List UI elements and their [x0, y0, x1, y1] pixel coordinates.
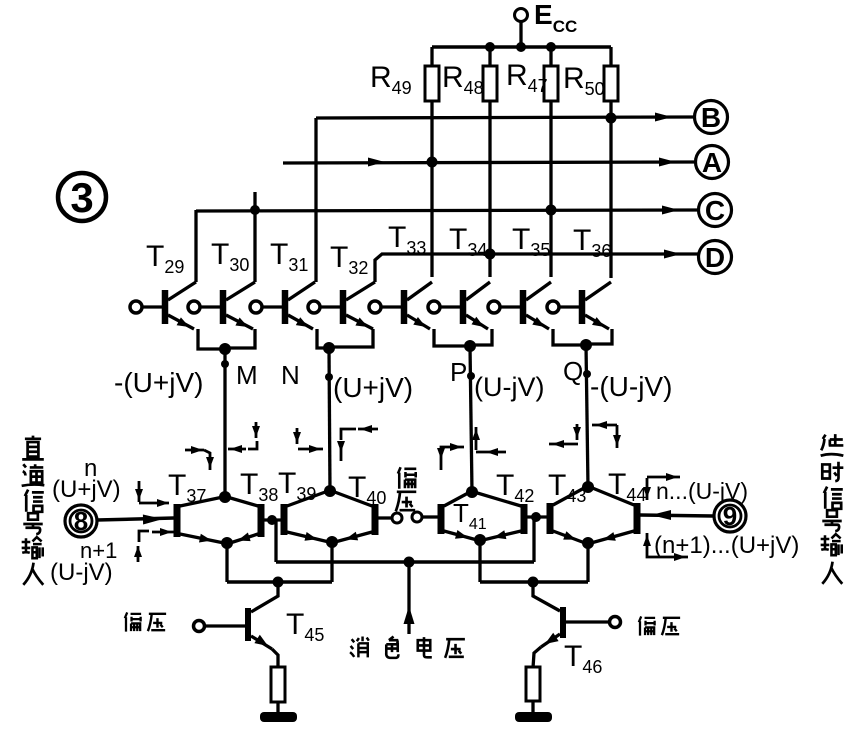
- svg-text:M: M: [236, 360, 258, 390]
- wire base tie drop: [274, 520, 277, 562]
- wire T30 collector vertical: [253, 192, 256, 282]
- wire input 8 to T37: [97, 515, 174, 525]
- marker arrow left of Q: [549, 424, 581, 448]
- arrow into A: [659, 158, 676, 167]
- wire diamond2 emitter drop: [330, 542, 333, 582]
- wire T38-T39 base tie: [264, 518, 281, 521]
- arrow into B: [655, 113, 672, 122]
- node emitter junction 3: [464, 340, 476, 352]
- wire emitters pair 4: [553, 329, 612, 345]
- transistor T37 base bar: [174, 504, 181, 537]
- transistor T36: [547, 282, 611, 329]
- wire diamond4 emitter drop: [586, 543, 589, 582]
- wire T43/T44 collector diagonals: [553, 487, 634, 505]
- svg-text:-(U+jV): -(U+jV): [114, 367, 203, 398]
- junction T46 collector: [528, 577, 539, 588]
- wire T42 emitter: [483, 530, 521, 540]
- marker arrow right of P: [472, 427, 506, 456]
- wire diamond3 emitter drop: [478, 540, 481, 582]
- wire output line A: [283, 162, 695, 163]
- marker arrow left of N: [293, 428, 323, 453]
- junction A-R49: [427, 157, 438, 168]
- column wire R50 to T36: [609, 101, 612, 278]
- marker arrow input9 upper: [643, 473, 680, 500]
- resistor R47: [544, 47, 558, 101]
- transistor T31: [250, 282, 315, 329]
- wire base rail: [276, 560, 534, 564]
- column wire R47 to T35: [549, 101, 552, 277]
- label 直通信号输入 (direct signal input): [22, 436, 45, 585]
- svg-text:(U-jV): (U-jV): [50, 559, 113, 586]
- junction C-T30 collector: [250, 205, 260, 215]
- svg-text:P: P: [450, 357, 467, 387]
- svg-text:8: 8: [74, 506, 88, 536]
- transistor T32: [308, 282, 375, 329]
- wire diamond1 emitter drop: [225, 543, 228, 582]
- wire T40 emitter: [335, 532, 372, 542]
- circled 3 figure label: [58, 173, 106, 221]
- node T41/T42 emitter vertex: [474, 534, 486, 546]
- wire T40 base to bias terminal: [378, 516, 391, 519]
- svg-text:D: D: [705, 242, 725, 273]
- wire T39 emitter: [287, 532, 329, 542]
- transistor T40 base bar: [372, 504, 379, 535]
- marker arrow input9 lower: [643, 533, 688, 561]
- transistor T43 base bar: [547, 503, 554, 534]
- wire to ground right: [531, 701, 534, 714]
- marker arrow left of M: [185, 446, 214, 470]
- wire to ground: [276, 702, 279, 714]
- wire T42-T43 base tie: [527, 515, 547, 518]
- wire emitters pair 2: [317, 329, 373, 348]
- wire line B drop to T31 collector: [314, 118, 317, 282]
- wire output line B: [316, 117, 694, 118]
- node T37/T38 collector vertex: [219, 491, 231, 503]
- marker arrow input8 upper: [135, 481, 169, 507]
- resistor R50: [604, 47, 618, 101]
- junction T38/T39 base: [267, 515, 277, 525]
- svg-text:N: N: [281, 360, 300, 390]
- marker arrow right of M: [228, 422, 260, 453]
- wire output line D: [375, 254, 698, 282]
- resistor R48: [483, 47, 497, 101]
- wire Q: [586, 345, 588, 487]
- wire right emitter rail: [480, 580, 588, 584]
- wire line C drop to T29 collector: [194, 210, 197, 282]
- transistor T39 base bar: [281, 504, 288, 535]
- input terminal 9: [714, 500, 746, 532]
- wire emitters pair 1: [198, 329, 255, 349]
- svg-text:9: 9: [723, 501, 737, 531]
- svg-text:3: 3: [70, 174, 93, 221]
- label 偏压 bias (T45): [125, 612, 166, 631]
- junction color-kill: [404, 557, 415, 568]
- node T37/T38 emitter vertex: [221, 537, 233, 549]
- transistor T45: [194, 583, 279, 668]
- wire T44 emitter: [591, 531, 634, 543]
- wire M: [223, 349, 226, 497]
- wire T41 emitter: [444, 530, 477, 540]
- wire input 9 to T44: [640, 510, 713, 520]
- bias terminal circle 2: [412, 512, 422, 522]
- wire P: [470, 346, 472, 492]
- junction D-R48: [485, 249, 496, 260]
- wire output line C: [196, 210, 698, 211]
- transistor T33: [369, 282, 432, 329]
- wire base tie drop right: [532, 517, 535, 562]
- node emitter junction 2: [323, 342, 335, 354]
- svg-text:B: B: [701, 102, 721, 133]
- node emitter junction 1: [219, 343, 231, 355]
- node T39/T40 collector vertex: [324, 485, 336, 497]
- ground right: [515, 712, 552, 722]
- resistor T45 emitter: [271, 667, 285, 702]
- transistor T42 base bar: [521, 504, 528, 534]
- wire N: [329, 348, 330, 491]
- bus junction: [485, 42, 495, 52]
- wire left emitter rail: [227, 580, 332, 584]
- transistor T38 base bar: [258, 504, 265, 537]
- junction T42/T43 base: [531, 512, 541, 522]
- label 消色电压 color-kill voltage: [350, 637, 465, 658]
- svg-text:Q: Q: [563, 356, 583, 386]
- resistor T46 emitter: [526, 667, 540, 701]
- transistor T46: [533, 583, 621, 668]
- ground: [260, 712, 297, 722]
- transistor T35: [488, 282, 551, 329]
- node C terminal: [699, 194, 732, 227]
- wire T37/T38 collector diagonals: [180, 497, 258, 506]
- Ecc supply terminal: [515, 0, 578, 47]
- wire emitters pair 3: [434, 329, 492, 346]
- node B terminal: [695, 101, 728, 134]
- svg-text:n...(U-jV): n...(U-jV): [656, 478, 748, 504]
- node D terminal: [699, 241, 732, 274]
- arrow into D: [664, 250, 681, 259]
- wire bias to T41 base: [422, 515, 438, 518]
- node T43/T44 collector vertex: [582, 481, 594, 493]
- wire T43 emitter: [553, 531, 585, 543]
- color-kill voltage input arrow: [404, 567, 415, 634]
- bias terminal circle: [392, 513, 402, 523]
- supply bus wire: [432, 45, 611, 49]
- node T41/T42 collector vertex: [466, 486, 478, 498]
- transistor T34: [428, 282, 490, 329]
- node emitter junction 4: [580, 339, 592, 351]
- junction B-R50: [606, 113, 617, 124]
- svg-text:C: C: [705, 195, 725, 226]
- input terminal 8: [65, 505, 97, 537]
- bus junction: [516, 42, 526, 52]
- node T39/T40 emitter vertex: [326, 536, 338, 548]
- column wire R48 to T34: [488, 101, 491, 277]
- wire T37 emitter: [180, 534, 224, 543]
- marker arrow right of N: [337, 425, 378, 461]
- marker arrow input8 lower: [134, 528, 174, 562]
- marker arrow right of Q: [592, 421, 621, 448]
- label 延时信号输入 (delayed signal input): [821, 434, 844, 584]
- bus junction: [546, 42, 556, 52]
- arrow on line A: [368, 158, 385, 167]
- wire T41/T42 collector diagonals: [444, 492, 521, 506]
- node A terminal: [696, 146, 729, 179]
- transistor T41 base bar: [438, 504, 445, 534]
- node T43/T44 emitter vertex: [582, 537, 594, 549]
- transistor T29: [130, 282, 196, 329]
- column wire R49 to T33: [430, 101, 433, 277]
- label 偏压 bias (middle): [396, 467, 417, 511]
- junction T45 collector: [273, 577, 284, 588]
- svg-text:A: A: [702, 147, 722, 178]
- resistor R49: [425, 47, 439, 101]
- junction C-R47: [546, 205, 557, 216]
- wire T39/T40 collector diagonals: [287, 491, 372, 506]
- marker arrow left of P: [437, 443, 464, 470]
- label 偏压 bias (T46): [639, 616, 680, 635]
- svg-text:(U+jV): (U+jV): [333, 372, 413, 403]
- svg-text:(U+jV): (U+jV): [52, 476, 121, 503]
- arrow into C: [662, 206, 679, 215]
- transistor T30: [188, 282, 255, 329]
- svg-text:-(U-jV): -(U-jV): [590, 371, 672, 402]
- svg-text:(U-jV): (U-jV): [474, 372, 544, 402]
- wire T38 emitter: [230, 533, 258, 544]
- transistor T44 base bar: [634, 503, 641, 534]
